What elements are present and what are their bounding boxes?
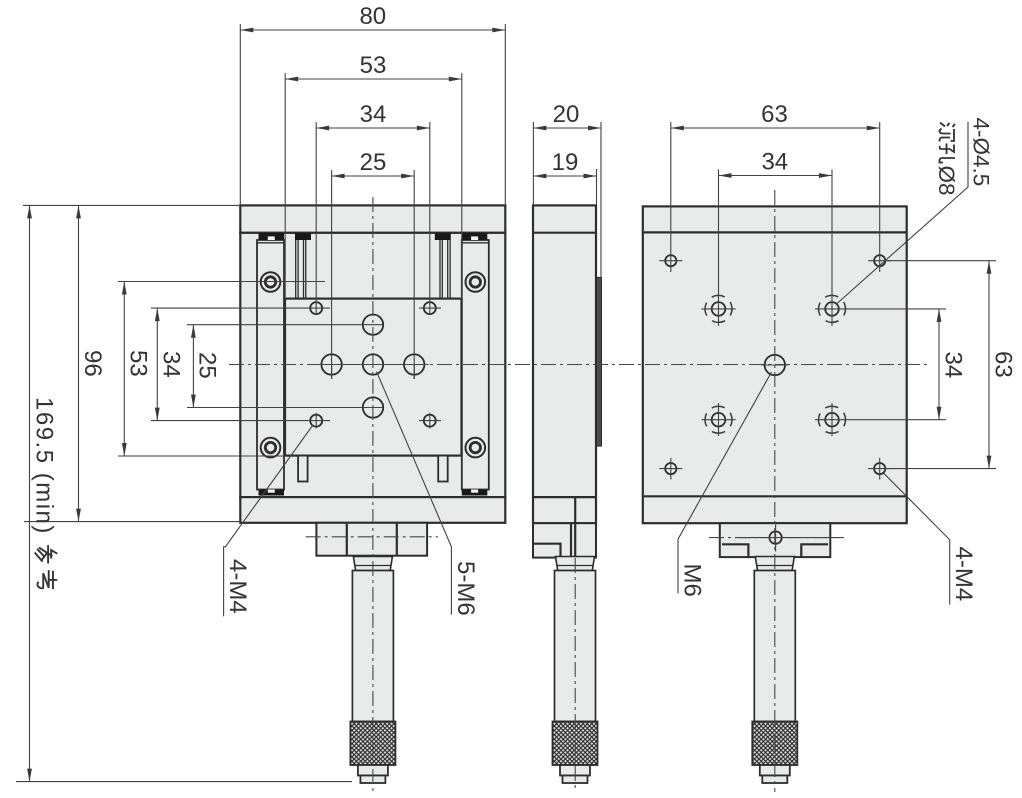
dim 19 side	[533, 149, 596, 178]
rail bottom cap left (black)	[259, 490, 285, 496]
hanging pin left	[298, 456, 308, 482]
svg-text:4-Ø4.5: 4-Ø4.5	[969, 118, 994, 187]
front vertical centerline	[372, 197, 374, 792]
ring screw bottom-left	[261, 438, 281, 458]
horizontal main centerline	[229, 364, 927, 366]
top pin cap left (black)	[295, 233, 311, 240]
dim 34 left	[155, 308, 185, 421]
ext lines top of side view	[533, 122, 601, 277]
svg-text:M6: M6	[679, 564, 706, 597]
ring screw top-left	[261, 272, 281, 292]
leader 5-M6 front	[377, 372, 479, 616]
svg-text:20: 20	[553, 101, 580, 128]
svg-text:96: 96	[79, 350, 106, 377]
dim 25 left	[191, 325, 221, 408]
svg-text:4-M4: 4-M4	[224, 559, 251, 614]
M6 hole top	[363, 315, 383, 335]
dim 63 top back	[671, 101, 880, 130]
dim 34 top	[316, 101, 430, 130]
back plate	[643, 206, 907, 523]
dim 20 side	[533, 101, 601, 130]
svg-text:34: 34	[940, 352, 967, 379]
svg-text:80: 80	[359, 3, 386, 30]
dim 25 top	[332, 149, 415, 178]
front body interior	[240, 233, 505, 497]
leader 4-M4 front	[224, 425, 313, 617]
ext lines right side	[815, 261, 996, 469]
svg-text:63: 63	[990, 351, 1017, 378]
front mount centerline	[306, 536, 438, 538]
M6 hole center	[363, 354, 383, 374]
svg-text:34: 34	[360, 101, 387, 128]
svg-text:34: 34	[158, 351, 185, 378]
counterbore hole BL	[702, 403, 736, 436]
hanzi chen2 (sink)	[940, 123, 956, 142]
ring screw bottom-right	[466, 438, 486, 458]
back micrometer	[752, 557, 797, 784]
side moving plate edge	[597, 277, 602, 446]
dim 80	[240, 3, 505, 32]
back mount centerline	[709, 537, 844, 539]
rail bottom cap right (black)	[462, 490, 488, 496]
counterbore hole TL	[702, 295, 736, 322]
back vertical centerline	[774, 190, 776, 792]
svg-text:25: 25	[194, 352, 221, 379]
ext lines top of back view	[671, 122, 880, 326]
dim 34 top back	[719, 149, 833, 178]
ext lines top of front view	[240, 24, 505, 379]
dim 53 top	[285, 52, 462, 81]
ext lines left side	[16, 205, 383, 781]
M4 hole top-right	[424, 302, 436, 314]
rail top cap right (black)	[462, 233, 488, 240]
svg-text:53: 53	[360, 52, 387, 79]
left rail block	[257, 240, 284, 490]
right rail block	[462, 240, 489, 490]
leader 4-d4.5 counterbore d8	[837, 118, 994, 304]
hanzi kong3 (hole)	[940, 144, 956, 163]
front bottom plate	[240, 497, 505, 523]
moving platform plate	[285, 299, 462, 456]
back corner hole TL	[659, 255, 682, 266]
M6 hole right	[404, 354, 424, 374]
back corner hole TR	[868, 255, 891, 266]
mount screw	[769, 531, 781, 543]
dim 53 left	[122, 282, 152, 457]
svg-text:34: 34	[761, 149, 788, 176]
counterbore hole TR	[819, 295, 846, 322]
M4 hole top-left	[310, 302, 322, 314]
right spring pin	[440, 240, 450, 299]
svg-text:Ø8: Ø8	[934, 166, 959, 196]
dim 34 right	[937, 309, 967, 420]
side mount block	[533, 523, 596, 557]
M4 hole bottom-left	[310, 415, 322, 427]
svg-text:5-M6: 5-M6	[452, 561, 479, 616]
back mount block	[720, 523, 831, 557]
dim 169.5 (min) left	[27, 205, 57, 781]
side vertical centerline	[574, 558, 576, 790]
side body	[533, 205, 596, 523]
crosshair stubs front holes	[316, 308, 441, 428]
ring screw top-right	[466, 272, 486, 292]
M4 hole bottom-right	[424, 415, 436, 427]
counterbore hole BR	[819, 403, 846, 436]
svg-text:19: 19	[552, 149, 579, 176]
dim 63 right	[987, 261, 1017, 469]
front top plate	[240, 205, 505, 232]
svg-text:169.5 (min): 169.5 (min)	[31, 397, 58, 535]
front micrometer mount block	[316, 523, 427, 556]
top pin cap right (black)	[435, 233, 451, 240]
side micrometer	[553, 557, 598, 784]
leader M6 back	[678, 372, 772, 597]
hanging pin right	[438, 456, 448, 482]
left spring pin	[296, 240, 306, 299]
M6 hole left	[321, 354, 341, 374]
front micrometer	[350, 557, 395, 784]
back corner hole BL	[659, 458, 682, 480]
svg-text:4-M4: 4-M4	[950, 547, 977, 602]
svg-text:53: 53	[125, 350, 152, 377]
back center hole M6	[762, 355, 789, 375]
hanzi cankao (reference) for 169.5 label	[35, 545, 58, 589]
svg-text:25: 25	[360, 149, 387, 176]
rail top cap left (black)	[259, 233, 285, 240]
svg-text:63: 63	[761, 101, 788, 128]
leader 4-M4 back	[884, 473, 978, 605]
back corner hole BR	[868, 458, 891, 480]
dim 96 left	[76, 205, 106, 521]
M6 hole bottom	[363, 397, 383, 417]
